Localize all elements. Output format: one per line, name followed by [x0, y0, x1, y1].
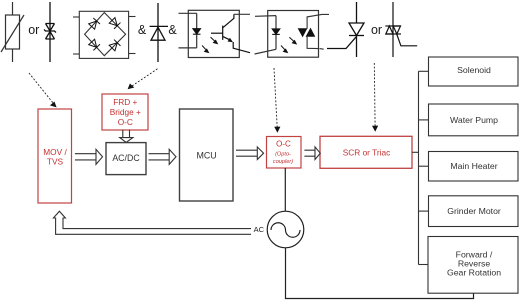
svg-text:&: &: [168, 23, 177, 37]
svg-text:O-C: O-C: [118, 117, 133, 127]
svg-text:O-C: O-C: [276, 140, 291, 149]
svg-text:Gear Rotation: Gear Rotation: [447, 268, 501, 278]
svg-text:Main Heater: Main Heater: [450, 161, 497, 171]
svg-text:TVS: TVS: [47, 156, 64, 166]
svg-text:AC/DC: AC/DC: [112, 153, 140, 163]
svg-text:AC: AC: [254, 225, 265, 234]
svg-text:SCR or Triac: SCR or Triac: [343, 147, 390, 157]
svg-text:FRD +: FRD +: [113, 97, 137, 107]
svg-text:Water Pump: Water Pump: [450, 115, 498, 125]
svg-text:coupler): coupler): [273, 159, 293, 165]
svg-text:&: &: [138, 23, 147, 37]
svg-text:or: or: [371, 23, 382, 37]
svg-text:(Opto-: (Opto-: [275, 152, 291, 158]
svg-text:Grinder Motor: Grinder Motor: [447, 206, 501, 216]
svg-text:MCU: MCU: [196, 151, 216, 161]
svg-text:Bridge +: Bridge +: [110, 107, 141, 117]
svg-text:Solenoid: Solenoid: [457, 65, 491, 75]
svg-text:or: or: [28, 23, 39, 37]
